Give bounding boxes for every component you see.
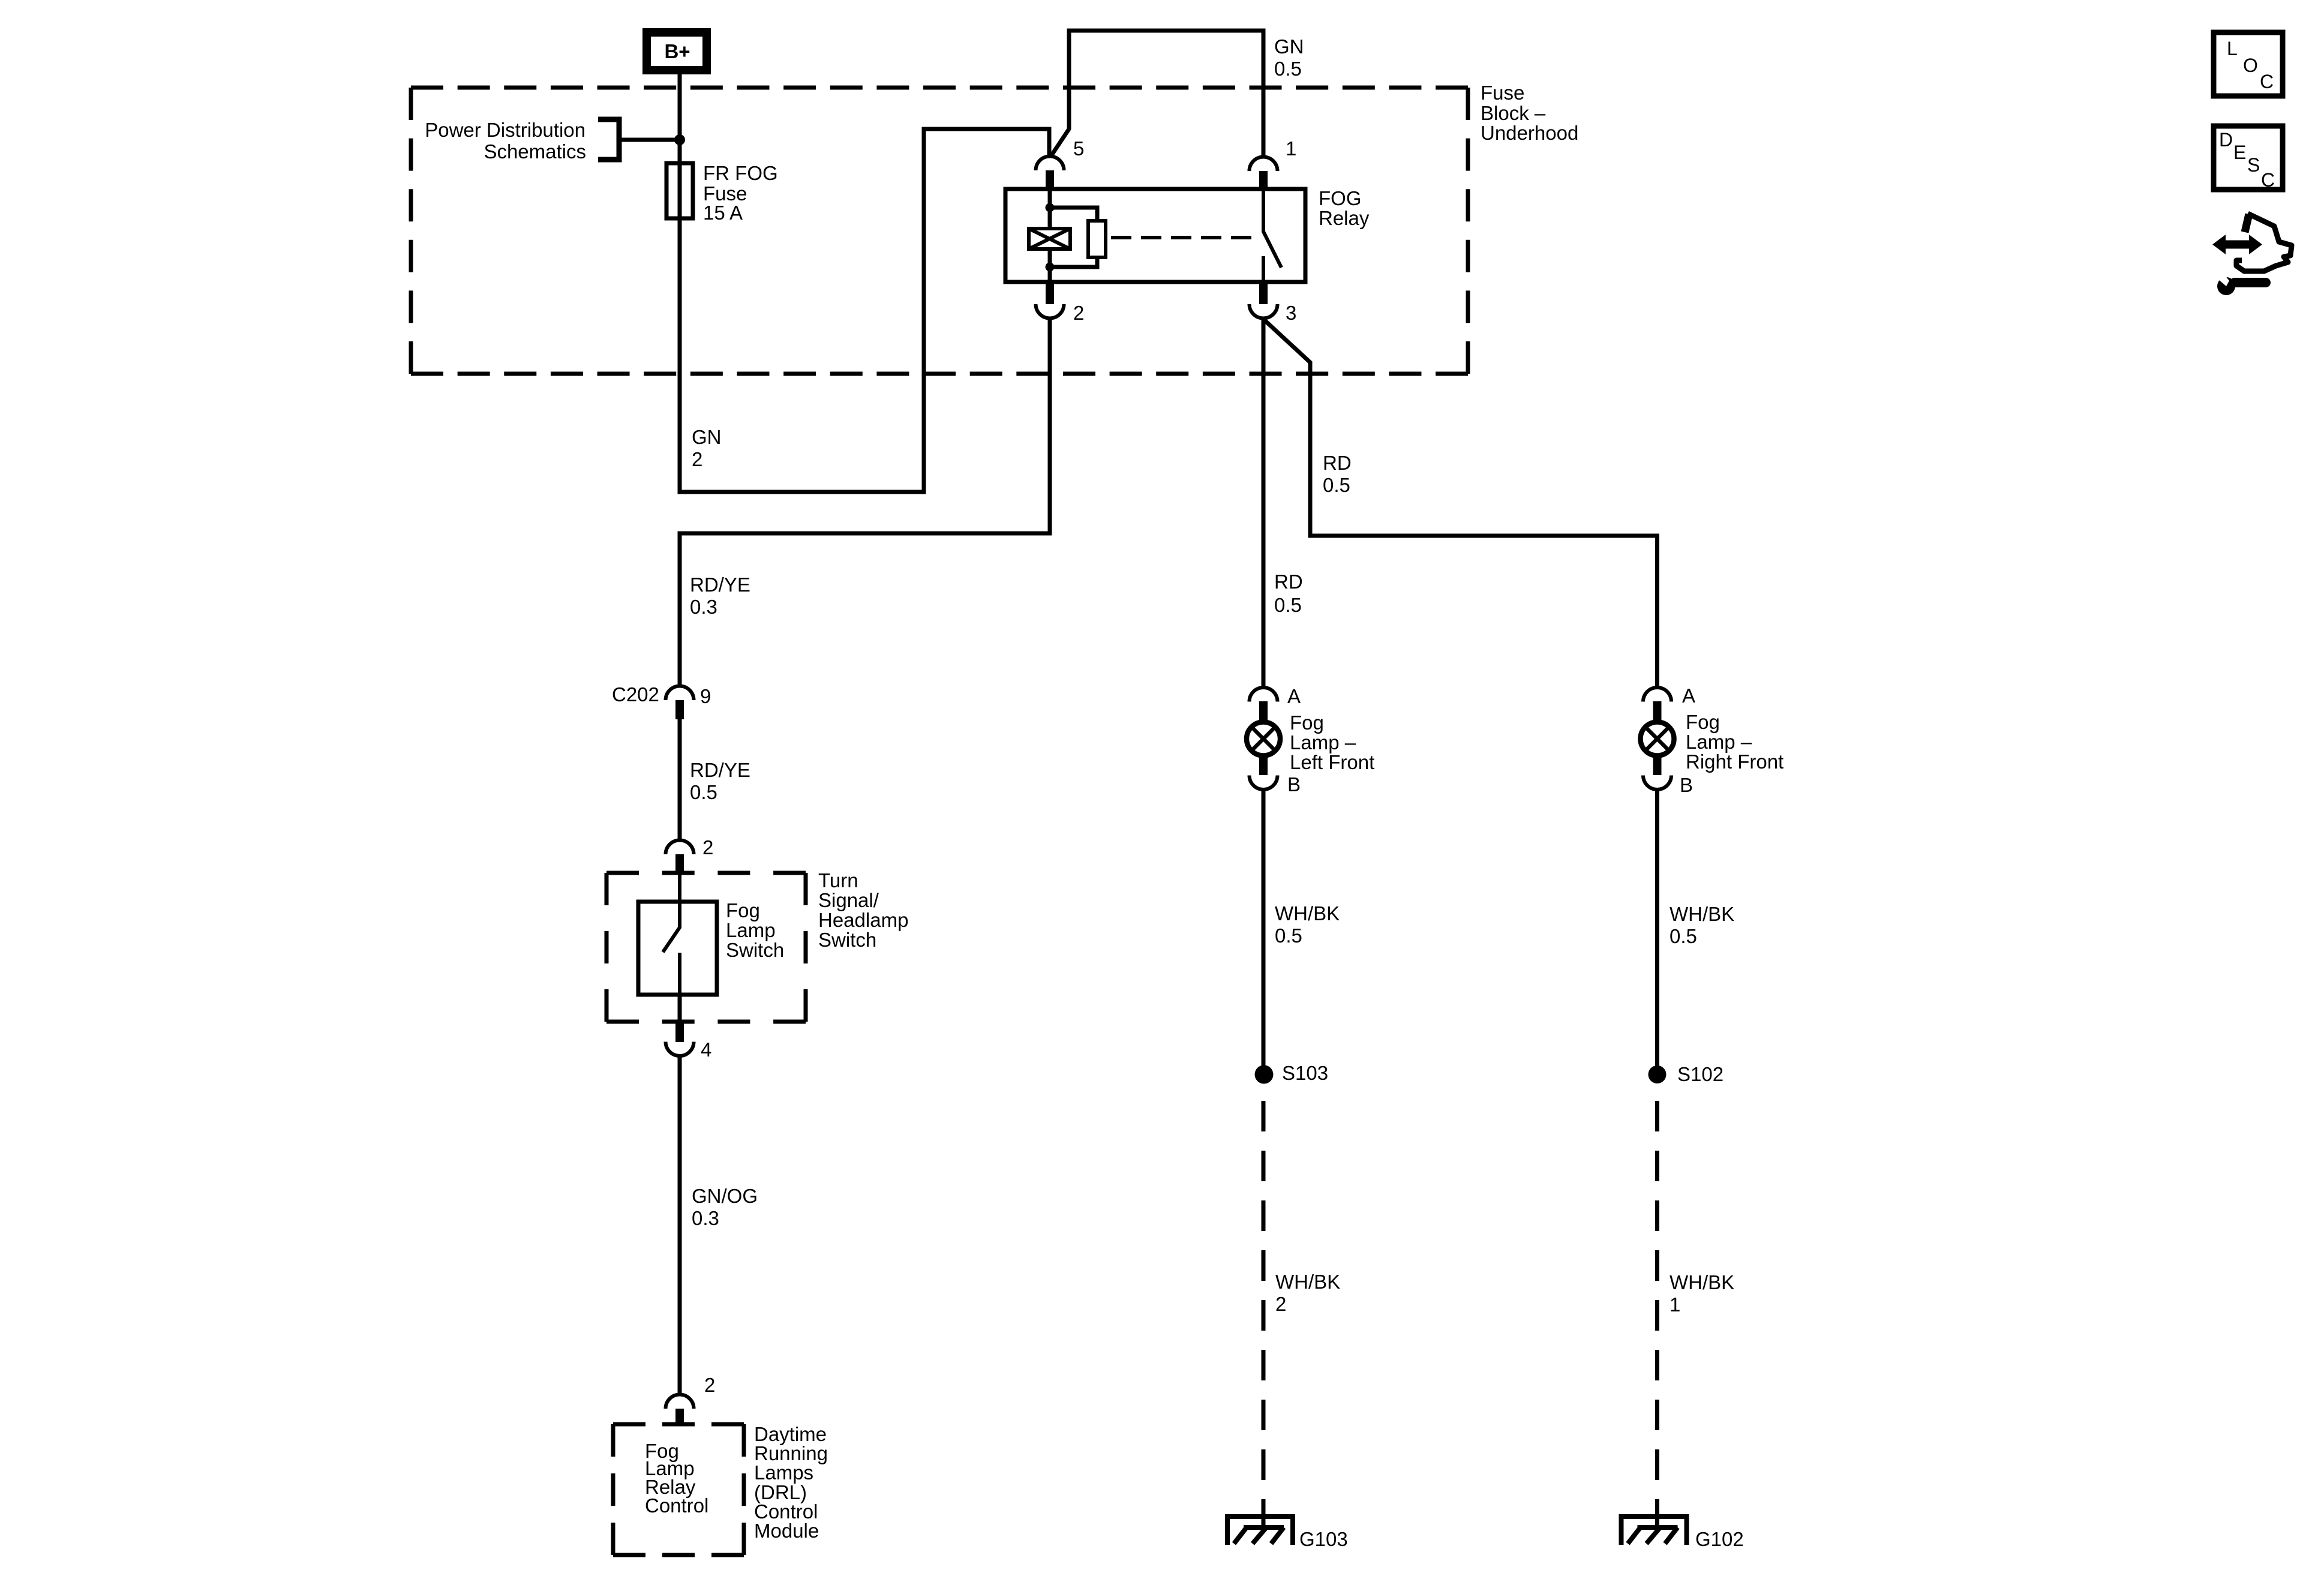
- svg-text:Power Distribution: Power Distribution: [425, 119, 585, 141]
- svg-text:Headlamp: Headlamp: [818, 909, 908, 931]
- wire B+ through fuse to relay pin 5 (GN 2 run): [680, 72, 1049, 492]
- svg-text:5: 5: [1073, 137, 1084, 160]
- splice S102: [1649, 1065, 1667, 1083]
- svg-text:GN: GN: [1274, 35, 1304, 58]
- wire label RD 0.5 left: [1274, 571, 1303, 616]
- ground G102: [1622, 1517, 1687, 1545]
- svg-text:S102: S102: [1677, 1063, 1724, 1085]
- junction dot coil bottom: [1046, 263, 1055, 272]
- svg-text:C: C: [2260, 71, 2274, 92]
- svg-text:Module: Module: [754, 1520, 819, 1542]
- svg-text:RD/YE: RD/YE: [690, 574, 750, 596]
- wire bracket to B+ feed: [619, 138, 680, 142]
- svg-text:Switch: Switch: [726, 939, 784, 961]
- svg-text:15 A: 15 A: [703, 202, 743, 224]
- fog lamp left front terminal B: [1250, 758, 1278, 789]
- power feed B+ box: [647, 32, 707, 70]
- wire label GN/OG 0.3: [692, 1185, 758, 1229]
- wire label WH/BK 2: [1275, 1271, 1340, 1315]
- relay pin 3 connector: [1250, 282, 1278, 318]
- svg-text:2: 2: [692, 448, 702, 470]
- svg-text:RD/YE: RD/YE: [690, 759, 750, 781]
- wire label WH/BK 0.5 left: [1275, 902, 1340, 947]
- svg-text:GN: GN: [692, 426, 722, 448]
- svg-text:Left Front: Left Front: [1290, 751, 1374, 773]
- wire RD/YE 0.5 C202 to switch: [678, 719, 682, 840]
- relay switch contact: [1263, 189, 1281, 282]
- svg-text:Lamps: Lamps: [754, 1461, 813, 1484]
- DRL module label: [754, 1423, 828, 1542]
- relay coil: [1029, 229, 1070, 249]
- junction dot coil top: [1046, 203, 1055, 212]
- svg-text:E: E: [2233, 142, 2246, 163]
- svg-text:Fog: Fog: [726, 899, 760, 921]
- dashed wire WH/BK 1 to ground: [1655, 1101, 1659, 1512]
- connector C202 pin 9: [666, 686, 694, 720]
- wire RD/YE pin 2 to C202: [680, 318, 1050, 686]
- svg-text:Turn: Turn: [818, 869, 858, 891]
- svg-text:2: 2: [1073, 302, 1084, 324]
- wire label RD/YE 0.5: [690, 759, 750, 803]
- ground G103: [1227, 1517, 1293, 1545]
- Turn Signal/Headlamp Switch label: [818, 869, 908, 951]
- svg-text:G103: G103: [1299, 1528, 1348, 1550]
- svg-text:C: C: [2261, 169, 2275, 191]
- svg-text:G102: G102: [1695, 1528, 1744, 1550]
- vehicle double-arrow icon: [2212, 214, 2292, 271]
- svg-text:3: 3: [1286, 302, 1296, 324]
- relay coil to contact dashed link: [1111, 236, 1253, 239]
- fog lamp right front terminal A: [1643, 688, 1671, 721]
- svg-text:A: A: [1682, 685, 1695, 707]
- junction node: [674, 134, 685, 145]
- svg-text:B+: B+: [664, 40, 690, 62]
- svg-text:Fog: Fog: [1290, 712, 1324, 734]
- Fuse Block Underhood label: [1481, 82, 1578, 144]
- svg-text:WH/BK: WH/BK: [1275, 1271, 1340, 1293]
- svg-text:0.5: 0.5: [1670, 925, 1697, 947]
- relay coil wiring: [1050, 189, 1097, 282]
- svg-text:Underhood: Underhood: [1481, 122, 1578, 144]
- FOG Relay label: [1319, 187, 1370, 229]
- fuse FR FOG 15 A: [666, 163, 693, 218]
- svg-text:C202: C202: [612, 683, 659, 706]
- relay pin 1 connector: [1250, 157, 1278, 189]
- wire label WH/BK 1: [1670, 1271, 1734, 1316]
- svg-text:WH/BK: WH/BK: [1670, 903, 1734, 925]
- Fog Lamp Switch label: [726, 899, 784, 961]
- fog lamp left front bulb: [1247, 722, 1280, 756]
- wire label RD/YE 0.3: [690, 574, 750, 618]
- fog lamp switch box: [638, 902, 717, 995]
- bracket: [598, 119, 619, 160]
- svg-text:WH/BK: WH/BK: [1275, 902, 1340, 924]
- svg-text:RD: RD: [1274, 571, 1303, 593]
- svg-text:0.3: 0.3: [690, 596, 717, 618]
- svg-text:WH/BK: WH/BK: [1670, 1271, 1734, 1293]
- svg-text:Relay: Relay: [1319, 207, 1370, 229]
- DRL module pin 2 connector: [666, 1395, 694, 1427]
- svg-text:B: B: [1287, 773, 1301, 795]
- wire GN/OG switch to DRL module: [678, 1056, 682, 1395]
- svg-text:0.5: 0.5: [1274, 594, 1302, 616]
- svg-text:1: 1: [1670, 1293, 1680, 1316]
- wire RD 0.5 branch to right fog lamp: [1263, 319, 1658, 688]
- wire GN 0.5 (relay pin 5 to pin 1 loop): [1051, 31, 1263, 157]
- svg-text:Lamp –: Lamp –: [1686, 731, 1752, 753]
- svg-text:Fuse: Fuse: [1481, 82, 1524, 104]
- svg-text:9: 9: [700, 685, 711, 707]
- svg-text:A: A: [1287, 685, 1301, 707]
- svg-text:O: O: [2243, 55, 2258, 76]
- Power Distribution Schematics label: [425, 119, 586, 163]
- LOC reference box: [2214, 32, 2283, 96]
- wire label WH/BK 0.5 right: [1670, 903, 1734, 947]
- switch pin 4 connector: [666, 1022, 694, 1056]
- fuse label: [703, 162, 778, 224]
- svg-text:Right Front: Right Front: [1686, 751, 1783, 773]
- wire label GN 0.5: [1274, 35, 1304, 80]
- svg-text:Lamp: Lamp: [726, 919, 776, 941]
- relay pin 5 connector: [1036, 157, 1064, 190]
- wire label GN 2: [692, 426, 722, 470]
- wire WH/BK 0.5 right lamp to S102: [1655, 789, 1659, 1074]
- switch pin 2 connector: [666, 840, 694, 873]
- wire label RD 0.5 right branch: [1323, 452, 1352, 496]
- svg-text:0.5: 0.5: [1274, 58, 1302, 80]
- FOG relay box: [1005, 189, 1305, 282]
- dashed wire WH/BK 2 to ground: [1262, 1101, 1266, 1512]
- svg-text:L: L: [2227, 38, 2238, 59]
- svg-text:D: D: [2219, 129, 2233, 151]
- svg-text:FR FOG: FR FOG: [703, 162, 778, 184]
- fuse block underhood dashed box: [411, 88, 1468, 374]
- svg-text:Schematics: Schematics: [484, 140, 586, 163]
- svg-text:Switch: Switch: [818, 929, 876, 951]
- turn signal/headlamp switch dashed box: [606, 873, 806, 1022]
- svg-text:S103: S103: [1282, 1062, 1328, 1084]
- relay resistor: [1088, 221, 1106, 257]
- svg-text:0.5: 0.5: [690, 781, 717, 803]
- svg-text:0.5: 0.5: [1275, 924, 1302, 947]
- wire RD 0.5 pin 3 to left fog lamp: [1262, 318, 1266, 688]
- svg-text:S: S: [2247, 154, 2260, 176]
- svg-text:2: 2: [704, 1374, 715, 1396]
- fog lamp left front terminal A: [1250, 688, 1278, 721]
- relay pin 2 connector: [1036, 282, 1064, 318]
- svg-text:FOG: FOG: [1319, 187, 1362, 209]
- svg-text:Block –: Block –: [1481, 102, 1546, 124]
- svg-text:Signal/: Signal/: [818, 889, 879, 911]
- wire WH/BK 0.5 left lamp to S103: [1262, 789, 1266, 1074]
- Fog Lamp Right Front label: [1686, 711, 1783, 773]
- svg-text:Control: Control: [645, 1494, 708, 1517]
- svg-text:4: 4: [701, 1038, 711, 1061]
- wire switch to pin 4: [678, 995, 682, 1022]
- svg-text:2: 2: [702, 836, 713, 858]
- svg-text:2: 2: [1275, 1293, 1286, 1315]
- DRL module dashed box: [613, 1424, 744, 1555]
- splice S103: [1255, 1065, 1274, 1084]
- Fog Lamp Left Front label: [1290, 712, 1374, 773]
- svg-text:Fog: Fog: [1686, 711, 1720, 733]
- DESC reference box: [2214, 126, 2283, 191]
- svg-text:RD: RD: [1323, 452, 1352, 474]
- svg-text:GN/OG: GN/OG: [692, 1185, 758, 1207]
- Fog Lamp Relay Control label: [645, 1440, 708, 1517]
- svg-text:1: 1: [1286, 137, 1296, 160]
- wrench icon: [2214, 270, 2271, 295]
- svg-text:0.5: 0.5: [1323, 474, 1350, 496]
- fog lamp switch contact: [663, 873, 680, 995]
- svg-text:B: B: [1680, 774, 1693, 796]
- svg-text:Lamp –: Lamp –: [1290, 731, 1356, 754]
- svg-text:0.3: 0.3: [692, 1207, 719, 1229]
- fog lamp right front terminal B: [1643, 758, 1671, 789]
- fog lamp right front bulb: [1641, 722, 1674, 756]
